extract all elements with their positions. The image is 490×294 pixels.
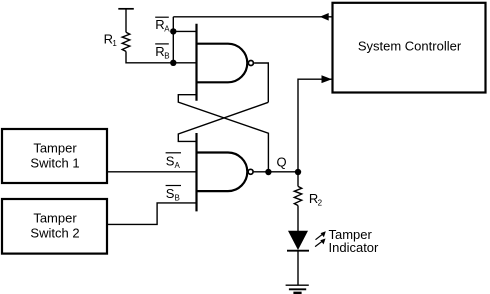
wire SA from switch 1 to gate U1B xyxy=(107,171,197,173)
svg-text:2: 2 xyxy=(318,199,323,208)
svg-text:R: R xyxy=(155,17,164,32)
svg-text:Tamper: Tamper xyxy=(33,140,77,155)
svg-text:A: A xyxy=(164,25,170,34)
wire U1A output xyxy=(254,63,268,102)
pull-up supply bar xyxy=(118,8,134,10)
svg-text:Switch 1: Switch 1 xyxy=(30,155,79,170)
nand gate U1B body xyxy=(197,153,248,192)
box Tamper Switch 1 xyxy=(2,129,107,183)
wire R1 to node RB xyxy=(126,51,173,62)
label RB xyxy=(155,43,169,45)
arrowhead into controller (points right) xyxy=(322,75,332,83)
svg-text:S: S xyxy=(166,153,175,168)
wire R2 to LED xyxy=(297,206,299,232)
LED cathode bar xyxy=(287,250,309,252)
resistor R2 xyxy=(294,186,301,205)
label RA xyxy=(155,16,169,18)
svg-text:B: B xyxy=(175,194,180,203)
svg-text:1: 1 xyxy=(112,39,117,48)
svg-text:B: B xyxy=(164,52,169,61)
label SA xyxy=(166,152,181,154)
wire RA to gate U1A xyxy=(173,30,196,32)
LED light arrow 2 xyxy=(315,241,323,247)
svg-text:Switch 2: Switch 2 xyxy=(30,225,79,240)
LED D1 triangle xyxy=(288,231,308,250)
node RB junction dot xyxy=(170,60,176,66)
node Q junction dot xyxy=(265,169,271,175)
nand gate U1B output bubble xyxy=(248,169,253,174)
wire Q node to R2 xyxy=(297,172,299,186)
svg-text:Tamper: Tamper xyxy=(33,210,77,225)
wire reset line to System Controller xyxy=(173,16,332,18)
wire SB from switch 2 to gate U1B xyxy=(107,203,197,225)
wire supply to R1 xyxy=(125,9,127,33)
wire Q output xyxy=(254,171,298,173)
svg-text:Q: Q xyxy=(277,155,287,170)
wire cross-couple U1A out to U1B in (diagonal) xyxy=(178,102,268,141)
svg-text:R: R xyxy=(155,44,164,59)
wire cross-couple Q to U1A in (diagonal) xyxy=(178,95,268,172)
nand gate U1B input bar xyxy=(195,133,197,211)
wire reset vertical (RA-RB) xyxy=(172,17,174,63)
nand gate U1A input bar xyxy=(195,24,197,101)
ground xyxy=(286,284,309,286)
box Tamper Switch 2 xyxy=(2,199,107,254)
nand gate U1A output bubble xyxy=(248,61,253,66)
LED light arrow 1 xyxy=(316,233,324,239)
wire Q to System Controller xyxy=(298,79,333,172)
nand gate U1A body xyxy=(197,44,248,83)
wire RB to gate U1A xyxy=(173,62,196,64)
resistor R1 xyxy=(122,32,130,51)
svg-text:S: S xyxy=(166,186,175,201)
svg-text:A: A xyxy=(175,161,181,170)
node RA junction dot xyxy=(170,28,176,34)
box System Controller xyxy=(333,3,486,93)
node R2 junction dot xyxy=(295,169,301,175)
svg-text:Indicator: Indicator xyxy=(329,240,380,255)
arrowhead from controller (points left) xyxy=(320,13,329,21)
label SB xyxy=(166,185,181,187)
svg-text:System Controller: System Controller xyxy=(358,39,462,54)
wire LED to ground xyxy=(297,251,299,286)
